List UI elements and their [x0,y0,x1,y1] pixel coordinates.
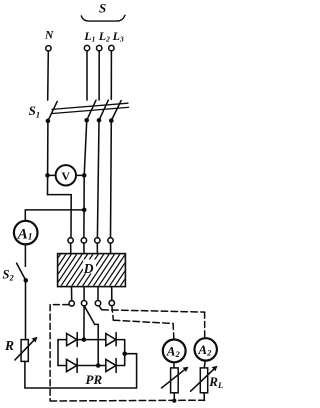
wire A1 top to L1 [25,210,84,221]
junction dot RL1 on bottom bus [172,399,176,403]
device D block [36,249,156,291]
junction dot S1 pole L3 [109,118,114,123]
diode top-left [67,334,77,346]
D block top terminal 4 [108,238,113,243]
junction dot S2 [24,278,29,283]
junction dot S1 pole L1 [84,118,89,123]
switch S1 blade pole L1 [87,100,96,120]
svg-text:V: V [61,169,70,183]
svg-text:S: S [99,0,106,15]
wire RL2 bottom stub [203,393,205,401]
top rail [58,339,125,341]
wire N terminal to S1 [47,51,50,100]
svg-text:R: R [4,338,14,353]
terminal L1 [84,45,89,50]
junction dot bridge mid-top [82,337,87,342]
wire stub D top 3 [96,243,98,253]
wire stub D bottom 1 [71,287,73,301]
dashed wire D terminal 3 to A3 [99,306,102,310]
wire D terminal 2 diagonal to bridge mid-bottom [85,307,99,366]
wire S2 to R [25,280,27,339]
svg-text:N: N [44,30,54,42]
wire L3 terminal to S1 [110,51,112,99]
switch S1 blade pole N [48,101,57,121]
diode bottom-right [106,359,116,371]
svg-text:L1: L1 [83,29,95,43]
wire RL1 bottom stub [173,393,175,401]
right vertical [124,340,126,366]
wire V left stub [48,174,56,176]
wire A1 to S2 [24,245,26,267]
wire L2 terminal to S1 [98,51,100,100]
wire N jog vertical to D terminal 1 [70,195,72,238]
diode top-right [106,334,116,346]
left vertical [57,340,59,366]
wire stub D top 2 [83,243,85,253]
wire stub D top 4 [110,243,112,253]
svg-text:RL: RL [208,374,223,390]
svg-text:D: D [83,261,94,276]
junction dot V-L1 [82,173,87,178]
wire A2 to RL1 [173,362,175,368]
wire stub D bottom 2 [83,287,85,301]
junction dot V-N [45,173,50,178]
D block bottom terminal 1 [69,301,74,306]
svg-text:S1: S1 [29,103,40,119]
junction dot DC output tap [122,351,127,356]
wire A3 to RL2 [204,361,205,368]
svg-text:A2: A2 [166,344,181,359]
dashed bottom bus horizontal [50,399,204,402]
terminal L3 [109,45,114,50]
ammeter A3 [195,338,217,360]
wire L1 terminal to S1 [86,51,88,100]
svg-text:A2: A2 [197,342,212,357]
wire L2 below S1 to D terminal 3 [97,122,99,238]
brace over L1 L2 L3 [81,15,125,21]
ammeter A1 [14,221,38,245]
terminal L2 [97,45,102,50]
svg-text:L2: L2 [98,29,110,43]
D block bottom terminal 4 [109,300,114,305]
rheostat RL2 body [200,368,207,393]
wire L3 below S1 to D terminal 4 [110,122,113,238]
rheostat R arrow [15,339,36,360]
svg-text:S2: S2 [3,268,15,283]
ammeter A2 [163,340,186,363]
wire stub D bottom 4 [111,287,113,301]
D block top terminal 2 [81,238,86,243]
wire L1 below S1 to D terminal 2 [84,122,87,238]
svg-text:A1: A1 [17,226,33,242]
voltmeter V [56,165,76,185]
rheostat RL1 body [171,368,179,393]
wire N below S1 to V junction and jog corner [47,122,49,195]
dashed wire D terminal 1 to left bus [50,304,69,306]
bottom rail [58,365,125,367]
svg-text:L3: L3 [112,29,124,43]
dashed wire D terminal 4 to A2 [112,306,113,320]
junction dot S1 pole L2 [97,118,102,123]
switch S1 blade pole L2 [99,100,108,120]
wire stub D top 1 [70,243,72,253]
wire stub D bottom 3 [97,287,99,301]
D block bottom terminal 3 [95,301,100,306]
switch S1 linkage bar (double line) [52,103,129,113]
terminal N [46,46,51,51]
wire R bottom to DC return [25,354,137,388]
svg-text:PR: PR [86,372,103,387]
D block top terminal 3 [95,238,100,243]
junction dot bridge mid-bottom [96,363,101,368]
switch S2 blade [17,263,26,280]
junction dot S1 pole N [46,119,51,124]
dashed left bus vertical [49,305,51,401]
wire V right stub [76,174,84,176]
rheostat RL1 arrow [162,368,187,388]
rheostat RL2 arrow [191,368,216,392]
switch S1 blade pole L3 [111,101,121,121]
junction dot A1 wire on L1 [82,208,87,213]
rheostat R body [21,340,28,362]
wire D terminal 2 to bridge mid-top [83,306,85,339]
diode bottom-left [67,359,77,371]
D block top terminal 1 [68,238,73,243]
D block bottom terminal 2 [81,301,86,306]
wire N jog horizontal [48,194,72,196]
